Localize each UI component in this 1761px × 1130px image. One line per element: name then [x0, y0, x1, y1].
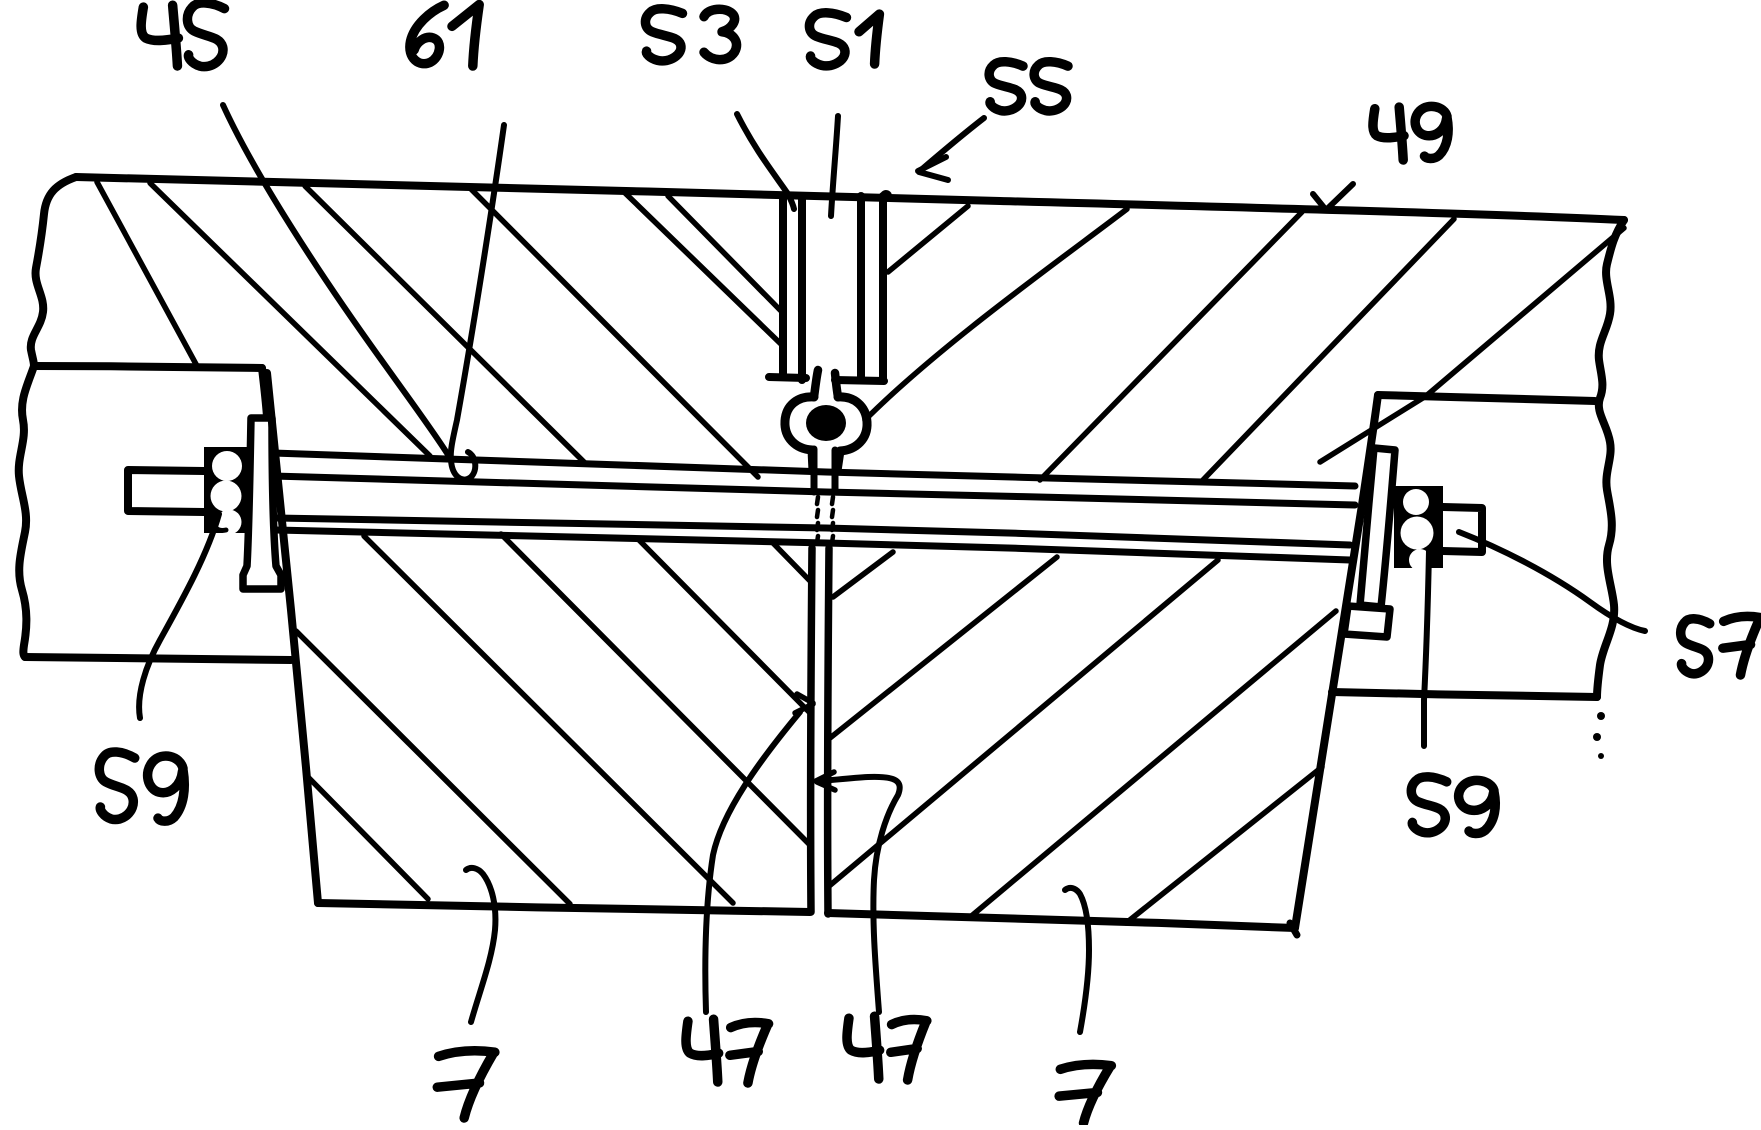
tube right bottom cap: [835, 380, 884, 381]
label 53: [645, 9, 736, 61]
valve chamber outline left: [785, 397, 814, 471]
shaft second line: [273, 476, 1355, 505]
leader from 51: [831, 116, 838, 216]
leader from 47 right: [820, 777, 900, 1012]
arrow check from 49: [1313, 184, 1353, 210]
left notch corner vertical: [262, 368, 267, 417]
leader from 7 left: [466, 868, 495, 1022]
hatch lower-right 2: [830, 557, 1057, 738]
leader from 59 right: [1424, 551, 1429, 746]
parting line dashes through shaft: [817, 497, 833, 543]
label 7 left: [437, 1051, 495, 1118]
shaft third line: [276, 518, 1350, 545]
chamber neck top left: [814, 370, 818, 397]
chamber neck top right: [835, 373, 838, 397]
hatch upper-left 2: [150, 183, 430, 456]
chamber lower neck left: [811, 449, 818, 492]
arrow from 55: [921, 118, 984, 170]
hatch upper-left 3: [305, 186, 585, 463]
left notch top step line: [34, 366, 262, 368]
leader from 53: [737, 114, 794, 209]
hatch upper-right 5b: [1426, 228, 1624, 396]
shaft top line: [273, 453, 1355, 486]
hatch lower-left 2: [308, 777, 428, 899]
hatch upper-left 1: [97, 182, 197, 366]
left band bottom step line: [25, 657, 291, 660]
valve ball: [806, 405, 846, 441]
right stub shaft end: [1443, 507, 1482, 552]
hatch upper-right 4: [1202, 219, 1454, 481]
left stub shaft end: [128, 470, 204, 512]
hatch upper-right 1: [888, 206, 968, 272]
hatch lower-left 6: [772, 542, 812, 583]
valve chamber outline right: [837, 397, 867, 471]
right flange foot: [1344, 606, 1390, 637]
right bearing ball 2: [1401, 517, 1434, 550]
left bearing block: [204, 447, 248, 533]
left broken-away wavy edge: [31, 177, 76, 366]
bottom edge end tick: [1290, 923, 1297, 935]
label 59 right: [1411, 777, 1495, 834]
left flange plate: [243, 418, 281, 589]
right bearing block: [1394, 486, 1443, 568]
leader from 61: [451, 125, 504, 480]
hatch lower-right 3: [828, 560, 1218, 887]
left bearing ball 2: [211, 481, 242, 512]
hatch upper-right 3: [1040, 212, 1302, 480]
right wavy edge break dots: [1593, 712, 1605, 759]
left broken-away wavy edge lower part: [19, 366, 34, 657]
label 57: [1681, 616, 1761, 675]
leader from 47 left: [705, 712, 800, 1012]
label 61: [410, 5, 479, 66]
leader from 7 right: [1065, 888, 1089, 1032]
hatch lower-right 4: [969, 611, 1336, 918]
bottom edge of trapezoid: [318, 903, 1295, 928]
trapezoid left edge: [267, 373, 318, 903]
label 55: [989, 62, 1068, 111]
left bearing ball 1: [212, 451, 242, 481]
tube outer left wall: [779, 196, 787, 377]
label 47 right: [847, 1016, 927, 1080]
label 7 right: [1059, 1064, 1111, 1123]
tube outer right wall: [879, 196, 887, 380]
label 49: [1373, 106, 1448, 160]
label 47 left: [686, 1019, 769, 1083]
left bearing ball 3: [217, 510, 242, 535]
right band bottom step line: [1332, 692, 1597, 697]
hatch upper-right 2: [865, 209, 1127, 420]
parting line left: [811, 548, 812, 912]
hatch upper-right 5a: [1320, 396, 1426, 462]
hatch upper-left 4: [471, 189, 758, 477]
trapezoid right edge: [1295, 395, 1378, 928]
hatch lower-right 1: [833, 552, 893, 597]
tube left bottom cap: [769, 377, 806, 378]
hatch lower-left 3: [364, 536, 733, 903]
right notch top step line: [1378, 395, 1595, 401]
label 59 left: [99, 752, 184, 821]
parting line right: [828, 548, 829, 914]
right bearing ball 3: [1409, 549, 1431, 571]
hatch lower-left 1: [296, 631, 570, 904]
hatch lower-right 5: [1126, 767, 1322, 923]
tube inner right wall: [857, 196, 865, 379]
hatch lower-left 4: [501, 534, 810, 845]
shaft bottom line: [276, 530, 1350, 560]
right broken-away wavy edge: [1597, 220, 1624, 697]
leader from 57: [1459, 532, 1645, 631]
hatch upper-left 6: [668, 196, 783, 313]
tube inner left wall: [798, 196, 806, 380]
right flange plate: [1360, 448, 1395, 607]
left bearing ball 3 curl: [214, 519, 226, 530]
chamber lower neck right: [832, 450, 839, 492]
junction dot on top edge: [880, 190, 892, 202]
top edge of upper plate 55: [76, 177, 1624, 220]
hatch upper-left 5: [623, 191, 783, 346]
label 45: [141, 3, 224, 67]
label 51: [809, 13, 879, 66]
leader from 45: [223, 105, 450, 458]
hatch lower-left 5: [638, 539, 811, 714]
leader from 59 left: [139, 514, 219, 718]
right bearing ball 1: [1403, 489, 1429, 515]
